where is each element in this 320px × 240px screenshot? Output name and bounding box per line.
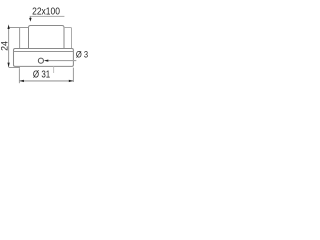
leader line down (29, 16, 31, 18)
extension 24 bottom (9, 67, 20, 69)
extension and ring top left edge (9, 27, 29, 29)
ring top right edge (64, 28, 72, 49)
leader underline 22x100 (30, 15, 65, 17)
arrow dia31 left (20, 80, 24, 82)
ghost mark (53, 66, 55, 73)
ring left edge (19, 28, 21, 49)
neck cylinder (29, 26, 65, 49)
dim line dia31 (20, 80, 74, 82)
leader arrowhead dia3 (44, 60, 49, 62)
skirt rim line (14, 51, 74, 53)
skirt body (14, 49, 74, 67)
arrow dia31 right (69, 80, 73, 82)
leader arrowhead (29, 18, 32, 22)
hole circle (38, 58, 43, 63)
svg-text:22x100: 22x100 (32, 6, 60, 17)
arrow 24 up (7, 24, 9, 29)
svg-text:24: 24 (0, 41, 10, 51)
leader line dia3 (46, 60, 77, 62)
extension dia31 left (18, 68, 20, 83)
arrow 24 down (7, 63, 9, 68)
svg-text:Ø 31: Ø 31 (33, 69, 50, 80)
extension dia31 right (72, 68, 74, 82)
dim line 24 (8, 26, 10, 67)
svg-text:Ø 3: Ø 3 (76, 49, 88, 60)
